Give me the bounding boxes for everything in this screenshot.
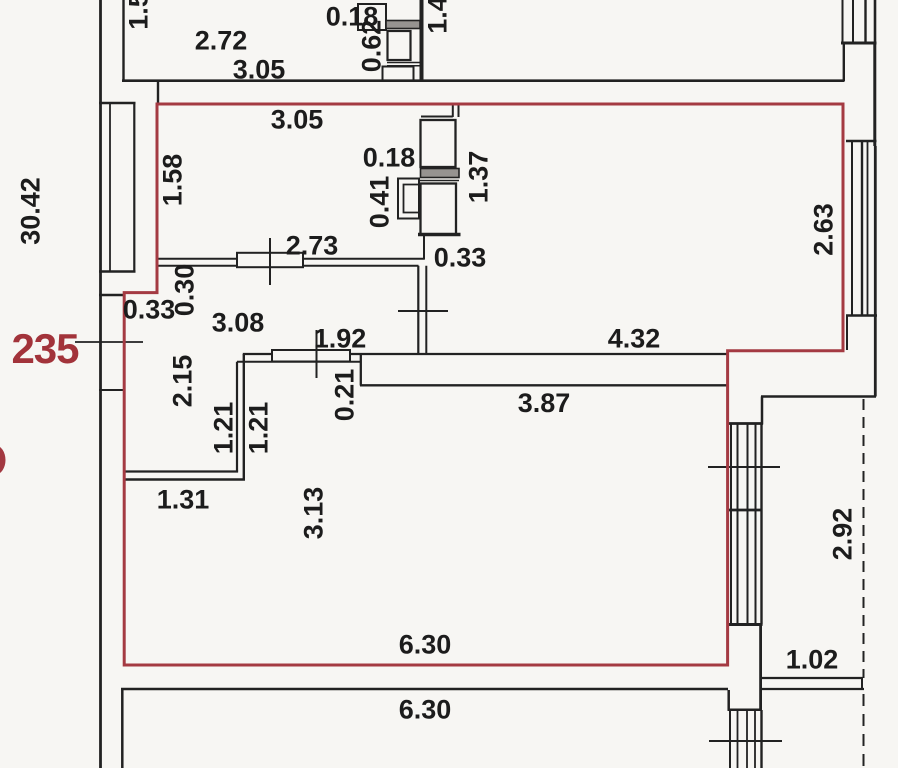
wall partition top-left (122, 0, 124, 81)
dim tick 1.92 (316, 330, 318, 378)
red arc fragment left edge (0, 446, 6, 475)
window 2.63 glazing (851, 141, 853, 315)
leader line 235 (75, 341, 143, 343)
svg-text:1.02: 1.02 (786, 645, 839, 675)
svg-text:0.18: 0.18 (363, 143, 416, 173)
svg-text:2.92: 2.92 (828, 508, 858, 561)
dim tick 0.33 (398, 310, 448, 312)
duct box1 (421, 120, 456, 167)
svg-text:3.87: 3.87 (518, 388, 571, 418)
svg-text:1.58: 1.58 (158, 154, 188, 207)
bottom window cap (728, 709, 763, 712)
balcony slab cap (861, 678, 863, 689)
shaft box B (383, 67, 414, 81)
duct box2 inner (404, 185, 420, 213)
svg-text:0.21: 0.21 (330, 369, 360, 422)
shaft duct box top (358, 4, 386, 30)
dim tick 2.73 (269, 238, 271, 285)
wall below balcony window (759, 625, 762, 711)
balcony slab edge top (760, 677, 863, 679)
svg-text:1.92: 1.92 (314, 324, 367, 354)
window left glazing (109, 103, 111, 272)
wall step left (99, 294, 124, 296)
balcony window cap top (728, 422, 763, 425)
window left cap top (99, 102, 136, 104)
svg-text:1.21: 1.21 (244, 402, 274, 455)
shaft gray band (386, 21, 420, 29)
svg-text:0.62: 0.62 (357, 20, 387, 73)
wall stub above red corner (157, 80, 159, 105)
partition hall wall (157, 258, 425, 260)
balcony window glazing (730, 425, 732, 625)
bottom window frame left (727, 690, 730, 710)
dashed boundary (863, 399, 865, 678)
svg-text:3.05: 3.05 (271, 105, 324, 135)
door sill hall (237, 253, 303, 267)
duct connector (452, 104, 454, 117)
svg-text:3.13: 3.13 (299, 487, 329, 540)
svg-text:0.41: 0.41 (365, 176, 395, 229)
svg-text:1.21: 1.21 (209, 402, 239, 455)
window 2.63 cap bottom (846, 314, 877, 316)
balcony upper left wall (761, 397, 764, 425)
balcony top edge (761, 395, 876, 398)
apartment 235 red boundary (124, 104, 843, 665)
svg-text:4.32: 4.32 (608, 324, 661, 354)
window top-right glazing (842, 0, 844, 43)
window top-right cap (841, 42, 877, 45)
wall right upper inner (843, 43, 845, 81)
wall step vertical (360, 354, 362, 386)
svg-text:3.05: 3.05 (233, 55, 286, 85)
bottom room top wall (121, 688, 728, 691)
svg-text:2.15: 2.15 (168, 355, 198, 408)
wall A (243, 353, 727, 355)
interior wall slot (417, 266, 419, 354)
bottom window glazing (729, 710, 731, 768)
wall C (360, 384, 727, 386)
wall cap above window 2.63 (846, 140, 877, 142)
duct box2 outer (398, 179, 419, 219)
svg-text:3.08: 3.08 (212, 308, 265, 338)
step room wall verticals (236, 362, 238, 472)
svg-text:1.37: 1.37 (464, 151, 494, 204)
wall B (237, 361, 361, 363)
wall right below window (846, 315, 848, 350)
svg-text:235: 235 (11, 325, 79, 372)
svg-text:1.4: 1.4 (423, 0, 453, 34)
duct step (423, 236, 425, 260)
svg-text:0.33: 0.33 (123, 295, 176, 325)
balcony window cap bottom (728, 623, 763, 626)
wall tick left (99, 389, 124, 391)
svg-text:2.73: 2.73 (286, 231, 339, 261)
shaft double line (387, 62, 420, 64)
svg-text:1.5: 1.5 (124, 0, 154, 30)
svg-text:6.30: 6.30 (399, 630, 452, 660)
window left frame (133, 103, 135, 272)
svg-text:30.42: 30.42 (16, 177, 46, 245)
wall left outer (99, 0, 102, 768)
shaft box A (388, 31, 411, 60)
wall top (122, 79, 845, 82)
duct thin line (420, 180, 459, 182)
svg-text:2.72: 2.72 (195, 26, 248, 56)
balcony slab edge bottom (760, 688, 864, 690)
duct gray band (421, 169, 460, 178)
svg-text:1.31: 1.31 (157, 485, 210, 515)
bottom room left wall (121, 689, 124, 768)
wall right outer (873, 43, 876, 146)
door sill 1.92 (272, 350, 350, 362)
balcony window mullion (729, 509, 762, 512)
svg-text:2.63: 2.63 (809, 203, 839, 256)
svg-text:0.33: 0.33 (434, 243, 487, 273)
svg-text:6.30: 6.30 (399, 695, 452, 725)
step room wall horizontals (123, 470, 238, 472)
dim tick balcony window (708, 466, 780, 468)
shaft wall thick vertical (420, 0, 424, 81)
dim tick bottom window (709, 740, 782, 742)
window left cap bottom (99, 270, 136, 272)
duct box3 (421, 184, 457, 235)
